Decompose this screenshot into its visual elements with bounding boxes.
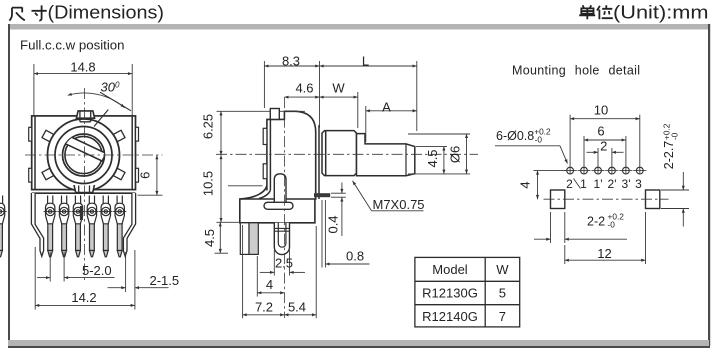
ear top-left	[29, 127, 32, 141]
left side leg	[31, 193, 43, 256]
pin 2	[58, 196, 71, 257]
dim 12 ext right	[645, 212, 647, 264]
dim 5.4 ext right	[315, 226, 317, 318]
eyelet circle	[0, 207, 4, 215]
front view dimensions	[34, 64, 169, 310]
hole 1	[581, 167, 588, 174]
dim 4 line	[537, 171, 539, 200]
svg-text:2.5: 2.5	[275, 256, 293, 271]
side leg back (white)	[240, 223, 249, 255]
frame bottom dark line	[8, 346, 710, 348]
label M7X0.75 underline	[372, 210, 424, 212]
dim 2-1.5 line b	[135, 287, 169, 289]
pin rib	[274, 174, 286, 202]
dim 14.8 ext left	[33, 64, 35, 115]
dim 2.5 ext b	[289, 250, 291, 276]
circle bump right upper	[113, 130, 125, 142]
front plate line	[318, 125, 320, 199]
svg-text:W: W	[496, 262, 509, 277]
title left: glyph chi (chinese char 1)	[9, 5, 46, 20]
svg-text:14.2: 14.2	[71, 290, 96, 305]
dim 4.5 shaft line	[443, 146, 445, 174]
dim 4 ext a	[256, 256, 258, 297]
svg-text:L: L	[362, 53, 369, 68]
front body bottom second line	[32, 192, 136, 194]
svg-text:5-2.0: 5-2.0	[82, 263, 112, 278]
svg-text:5: 5	[499, 286, 506, 301]
dim 6.25 ext top b	[279, 110, 305, 112]
body bottom ext line	[228, 185, 263, 187]
mounting rect right	[646, 190, 660, 209]
circle r21	[63, 134, 105, 176]
svg-text:2: 2	[600, 139, 607, 154]
hole 3	[636, 167, 643, 174]
dim 7.2 line	[243, 314, 285, 316]
dim 2 line a	[587, 151, 599, 153]
frame left border	[8, 24, 10, 340]
svg-text:2': 2'	[608, 177, 617, 191]
svg-text:W: W	[332, 81, 345, 96]
frame bottom gray bar	[8, 340, 709, 346]
dim 4.5 left line	[219, 222, 221, 253]
front centerline vertical	[84, 88, 86, 283]
dim 14.8 line	[34, 73, 132, 75]
svg-text:6-Ø0.8+0.2-0: 6-Ø0.8+0.2-0	[496, 127, 551, 145]
svg-text:0.4: 0.4	[326, 215, 341, 233]
shaft slot bar	[62, 134, 106, 161]
pin 1	[44, 196, 57, 257]
dim 14.2 line	[35, 304, 135, 306]
circle bump right lower	[113, 168, 125, 180]
dim 10 ext left	[569, 115, 571, 175]
svg-text:4: 4	[518, 181, 533, 188]
table hline 1	[415, 280, 520, 282]
ear bottom-left	[29, 168, 32, 182]
svg-text:Ø6: Ø6	[448, 146, 463, 163]
label slash	[574, 179, 581, 189]
dim 14.8 ext right	[131, 64, 133, 115]
dim 0.8 line	[325, 263, 369, 265]
dim W ext right	[357, 92, 359, 128]
dim 7.2 ext left	[242, 225, 244, 318]
svg-text:10.5: 10.5	[201, 171, 216, 196]
dim 2-1.5 line a	[108, 287, 126, 289]
dim 10 line	[570, 118, 640, 120]
dim 5-2.0 line a	[37, 277, 50, 279]
dim 5-2.0 ext1	[49, 252, 51, 282]
dim dia6 line	[466, 134, 468, 174]
label 6-dia0.8 underline	[495, 145, 560, 147]
dim 2.5 ext a	[273, 250, 275, 276]
dim 5-2.0 ext2	[63, 252, 65, 282]
hole 2	[567, 167, 574, 174]
svg-text:3: 3	[635, 177, 642, 191]
dim 6.25 line	[220, 111, 222, 155]
frame top gray bar	[8, 24, 709, 30]
svg-text:6.25: 6.25	[201, 114, 216, 139]
pin neck	[0, 196, 3, 205]
dim 0.4 ext a	[331, 192, 346, 194]
dim 2-2 ext a	[550, 212, 552, 243]
dim 2 ext right	[611, 148, 613, 174]
shaft circle r18.6	[65, 136, 102, 173]
side back bump upper	[263, 128, 267, 144]
dim 0.4 arrow top	[341, 183, 343, 194]
svg-text:5.4: 5.4	[288, 300, 306, 315]
circle bump left upper	[42, 130, 54, 142]
dim 5.4 line	[284, 314, 316, 316]
dim 14.2 ext right	[134, 250, 136, 310]
dim 6.25 ext top a	[217, 110, 271, 112]
eyelet center	[0, 210, 2, 213]
locating pin inner	[278, 223, 286, 247]
table vline	[484, 257, 486, 327]
pins row	[0, 196, 7, 257]
svg-text:2-2: 2-2	[587, 214, 605, 228]
svg-text:R12130G: R12130G	[422, 286, 478, 301]
svg-text:R12140G: R12140G	[422, 309, 478, 324]
label M7X0.75 leader	[353, 181, 372, 211]
dim 8.3 line	[264, 65, 319, 67]
dim 2 ext left	[597, 148, 599, 174]
top tab notch	[80, 111, 91, 122]
dim arc 30	[68, 93, 125, 108]
svg-text:8.3: 8.3	[282, 53, 300, 68]
pin leg	[0, 222, 2, 251]
ear bottom-right	[136, 168, 139, 182]
dim A ext left	[365, 106, 367, 142]
side back bump lower	[263, 164, 267, 179]
svg-text:12: 12	[597, 246, 611, 261]
dim 2-2 ext b	[564, 212, 566, 243]
title left: glyph cun (chinese char 2)	[32, 5, 47, 20]
dim L ext right	[416, 61, 418, 131]
svg-text:4.5: 4.5	[202, 229, 217, 247]
dim 14.2 ext left	[34, 247, 36, 310]
dim 6 line	[156, 155, 158, 195]
svg-text:300: 300	[101, 80, 120, 95]
dim 4 ext top	[534, 170, 567, 172]
svg-text:6: 6	[597, 124, 604, 139]
dim 4.5 shaft ext top	[416, 145, 447, 147]
svg-text:Full.c.c.w position: Full.c.c.w position	[20, 38, 125, 53]
side body inner curve	[259, 190, 270, 198]
dim 8.3/L ext mid	[319, 61, 321, 128]
pin 6	[113, 196, 126, 257]
dim 2-2 line b	[565, 238, 627, 240]
mount centerline	[544, 198, 669, 200]
label 6-dia0.8 leader	[560, 146, 568, 164]
dim A line	[366, 110, 417, 112]
hole 1p	[595, 167, 602, 174]
dim 0.4 ext b	[331, 196, 346, 198]
eyelet	[0, 203, 5, 224]
dim 2-2 line a	[534, 238, 551, 240]
side leg front (gray)	[249, 223, 258, 255]
pin tip	[0, 251, 2, 257]
front body inner wall left	[34, 116, 36, 190]
pin 5	[99, 196, 112, 257]
dim 12 ext left	[564, 245, 566, 264]
side centerline vertical	[283, 97, 285, 318]
front body outline	[32, 116, 136, 190]
front body inner wall right	[131, 116, 133, 190]
dim 6 ext right	[625, 136, 627, 174]
dim 10 ext right	[639, 115, 641, 175]
table outer	[415, 257, 520, 327]
dim 12 line	[565, 259, 646, 261]
hole ticks	[564, 170, 647, 172]
dim 0.4 arrow bottom	[341, 197, 343, 236]
side view dimensions	[215, 61, 471, 318]
bottom tab	[74, 185, 94, 193]
hole 2p	[609, 167, 616, 174]
locating pin joint lines	[274, 227, 289, 229]
washer dark	[314, 193, 330, 197]
svg-text:Mounting hole detail: Mounting hole detail	[512, 64, 640, 78]
svg-text:Model: Model	[432, 262, 468, 277]
bushing inner line	[325, 131, 327, 176]
side centerline horizontal	[216, 97, 478, 318]
dim 2.5 line a	[260, 271, 275, 273]
dim 0.8 ext a	[321, 200, 323, 268]
svg-text:2-1.5: 2-1.5	[150, 273, 180, 288]
dim 6 line	[584, 139, 626, 141]
title right: glyph dan (chinese char 1)	[579, 5, 613, 19]
side body outline	[240, 111, 316, 223]
svg-text:14.8: 14.8	[70, 60, 95, 75]
bracket slot	[264, 202, 293, 209]
svg-text:7.2: 7.2	[255, 300, 273, 315]
outer circle r36	[48, 119, 120, 191]
dim 8.3 ext left	[263, 61, 265, 108]
dim 5-2.0 line b	[64, 277, 114, 279]
svg-text:4.6: 4.6	[295, 81, 313, 96]
pin 4	[85, 196, 98, 257]
svg-text:2: 2	[566, 177, 573, 191]
30 degree ray upper	[100, 92, 131, 111]
section mark on centerline	[80, 206, 83, 220]
ear top-right	[136, 127, 139, 141]
shaft chamfer line	[405, 144, 407, 176]
dim 2-2.7 ext bottom	[661, 208, 689, 210]
30 degree ray lower	[94, 110, 108, 127]
svg-text:7: 7	[499, 309, 506, 324]
circle bump left lower	[42, 168, 54, 180]
dim text 2-2.7	[662, 123, 680, 169]
table hline 2	[415, 304, 520, 306]
eyelet tick	[0, 211, 7, 213]
bracket top edge	[240, 198, 315, 200]
svg-text:2-2.7: 2-2.7	[662, 141, 676, 170]
locating pin outer	[274, 223, 289, 255]
dim 2.5 line b	[290, 271, 306, 273]
dim L line	[320, 65, 417, 67]
dim 6 ext bottom	[138, 194, 163, 196]
right side leg	[123, 193, 135, 256]
dim dia6 ext bottom	[408, 173, 470, 175]
hole 3p	[623, 167, 630, 174]
frame right border	[708, 24, 710, 346]
dim 0.8 ext b	[324, 200, 326, 268]
dim 6 ext left	[583, 136, 585, 174]
dim 2-2.7 ext top	[661, 189, 689, 191]
svg-text:4: 4	[266, 277, 273, 292]
top tab	[76, 111, 94, 118]
dim 2-2.7 arrow top	[682, 172, 684, 190]
svg-text:M7X0.75: M7X0.75	[373, 197, 425, 212]
shaft	[357, 134, 415, 176]
svg-text:10: 10	[594, 102, 608, 117]
dim 2-2.7 arrow bottom	[682, 209, 684, 227]
dim 2-1.5 ext	[125, 252, 127, 292]
svg-text:1': 1'	[594, 177, 603, 191]
svg-text:1: 1	[580, 177, 587, 191]
svg-text:(Dimensions): (Dimensions)	[48, 2, 165, 22]
side body inner wall	[269, 120, 271, 190]
title right: glyph wei (chinese char 2)	[597, 5, 613, 19]
svg-text:6: 6	[138, 172, 153, 179]
circle r28.5	[55, 127, 112, 184]
pin 3	[71, 196, 84, 257]
svg-text:-0: -0	[670, 132, 680, 140]
dim dia6 ext top	[408, 133, 470, 135]
side top tab	[270, 109, 279, 120]
svg-text:4.5: 4.5	[425, 149, 440, 167]
bottom tab notch	[79, 186, 90, 193]
dim 4 line	[257, 292, 284, 294]
dim 4.5 left ext bottom	[215, 252, 229, 254]
svg-text:3': 3'	[622, 177, 631, 191]
svg-text:(Unit):mm: (Unit):mm	[613, 2, 709, 22]
dim 4.6 line	[284, 96, 319, 98]
dim 10.5 line	[220, 155, 222, 222]
svg-text:A: A	[382, 99, 391, 114]
dim W line	[320, 96, 358, 98]
svg-text:-0: -0	[608, 220, 616, 230]
svg-text:0.8: 0.8	[346, 249, 364, 264]
mounting rect left	[551, 190, 565, 209]
front centerline horizontal	[25, 88, 163, 283]
dim 2 line b	[612, 151, 624, 153]
dim 10.5 ext bottom	[217, 221, 241, 223]
bushing	[322, 131, 357, 176]
